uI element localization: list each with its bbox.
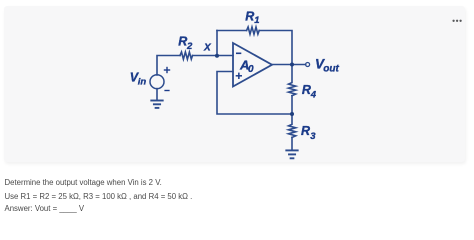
- wire: op-amp output to Vout terminal: [272, 64, 306, 66]
- svg-text:0: 0: [248, 64, 254, 75]
- svg-text:3: 3: [310, 131, 316, 142]
- ground (below source): [151, 101, 162, 108]
- wire: R4 bottom to tap node: [291, 96, 293, 114]
- wire: R1 right, corner down to output node: [259, 31, 292, 65]
- wire: node X to op-amp inverting input: [217, 55, 233, 57]
- ground (below R3): [286, 150, 297, 158]
- resistor R1: [247, 27, 260, 34]
- source minus sign: [164, 90, 169, 92]
- wire: R3 bottom to ground: [291, 137, 293, 149]
- question text line 2: [5, 192, 193, 201]
- question text line 1: [5, 178, 162, 187]
- node X junction dot: [215, 54, 219, 58]
- wire: R2 right to node X: [193, 55, 218, 57]
- op-amp minus input sign: [236, 52, 241, 54]
- svg-text:in: in: [138, 76, 147, 87]
- wire: source bottom to ground: [156, 89, 158, 100]
- svg-text:X: X: [203, 43, 212, 54]
- menu ellipsis icon: [452, 20, 461, 22]
- question card panel: [4, 6, 465, 162]
- wire: non-inverting input feedback loop: [217, 72, 292, 115]
- svg-text:out: out: [323, 64, 339, 75]
- svg-text:2: 2: [186, 41, 193, 52]
- resistor R2: [180, 52, 193, 59]
- question text line 3: [5, 204, 85, 213]
- wire: node X up to feedback top rail: [216, 31, 218, 56]
- op-amp plus input sign: [236, 73, 242, 79]
- svg-text:R: R: [302, 83, 311, 97]
- wire: top rail left segment: [217, 30, 247, 32]
- svg-text:R: R: [301, 124, 310, 138]
- svg-text:1: 1: [254, 15, 259, 26]
- voltage source Vin: [150, 75, 164, 89]
- resistor R4: [289, 65, 296, 96]
- wire: source top to R2 left: [157, 56, 180, 75]
- resistor R3: [289, 114, 296, 137]
- svg-text:4: 4: [310, 90, 317, 101]
- op-amp A0 triangle: [233, 43, 272, 87]
- node: feedback tap junction dot: [290, 112, 294, 116]
- node: output junction dot: [290, 63, 294, 67]
- terminal Vout open circle: [306, 63, 310, 67]
- source plus sign: [164, 67, 170, 73]
- svg-text:R: R: [178, 35, 187, 49]
- svg-text:R: R: [245, 10, 254, 24]
